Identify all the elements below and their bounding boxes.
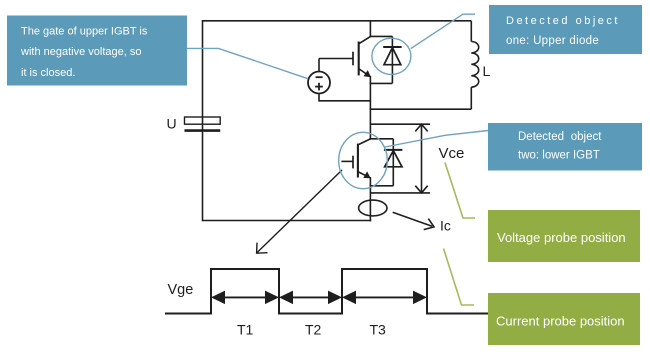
T2 span arrow — [279, 291, 342, 305]
wire: gate source bottom lead — [319, 94, 371, 101]
callout line: Vce to voltage probe box — [445, 163, 475, 219]
svg-text:Detected object: Detected object — [518, 131, 602, 143]
svg-text:T3: T3 — [370, 322, 387, 338]
wire: top rail — [203, 20, 472, 22]
callout box: gate note — [7, 16, 187, 86]
callout line: gate note to voltage source — [187, 48, 308, 78]
current probe ellipse — [359, 200, 387, 216]
svg-text:Ic: Ic — [440, 217, 451, 233]
wire: upper diode bottom branch — [370, 82, 393, 84]
Vce dimension arrow — [415, 124, 427, 193]
Vce dimension top line — [370, 123, 430, 125]
diode D1 (upper freewheel diode) — [383, 36, 401, 83]
callout line: upper diode to detected object one — [411, 14, 475, 48]
wire: upper collector feed — [369, 21, 371, 37]
wire: freewheel return — [370, 108, 472, 110]
Vce dimension bottom line — [370, 192, 430, 194]
wire: gate source top lead — [318, 59, 320, 72]
wire: lower diode bottom branch — [370, 185, 394, 187]
T1 span arrow — [211, 291, 279, 305]
svg-text:it is closed.: it is closed. — [21, 67, 75, 79]
svg-text:U: U — [167, 116, 177, 132]
inductor L — [471, 42, 478, 88]
svg-text:L: L — [483, 63, 491, 79]
svg-text:Voltage probe position: Voltage probe position — [497, 230, 626, 245]
svg-text:Vce: Vce — [439, 145, 465, 162]
wire: lower gate lead — [341, 160, 353, 162]
svg-text:T1: T1 — [237, 322, 254, 338]
svg-text:Detected object: Detected object — [506, 15, 620, 27]
svg-text:The gate of upper IGBT is: The gate of upper IGBT is — [21, 26, 148, 38]
transistor lower IGBT — [353, 139, 370, 178]
svg-text:Vge: Vge — [168, 282, 194, 298]
wire: right rail lower — [470, 87, 472, 109]
callout line: lower IGBT to detected object two — [385, 131, 488, 148]
highlight ellipse lower IGBT — [339, 132, 388, 188]
waveform Vge trace — [165, 269, 489, 314]
capacitor U — [185, 117, 221, 131]
svg-text:two: lower IGBT: two: lower IGBT — [518, 149, 600, 161]
callout line: waveform to current probe box — [444, 249, 475, 306]
wire: left rail — [202, 20, 204, 221]
callout box: detected object two — [488, 123, 642, 171]
Ic arrow — [393, 212, 434, 229]
wire: upper gate lead — [319, 58, 353, 60]
svg-text:T2: T2 — [305, 322, 322, 338]
transistor upper IGBT — [353, 37, 370, 77]
wire: upper diode top branch — [370, 35, 393, 37]
callout box: detected object one — [489, 5, 642, 54]
wire: lower diode top branch — [370, 138, 394, 140]
wire: bottom rail — [203, 220, 372, 222]
wire: lower emitter rail — [369, 177, 371, 221]
highlight circle upper diode — [372, 38, 411, 74]
callout box: current probe position — [488, 293, 640, 345]
wire: mid rail — [369, 76, 371, 140]
T3 span arrow — [342, 291, 427, 305]
pointer arrow to waveform — [257, 170, 342, 253]
wire: right rail upper — [470, 21, 472, 42]
voltage source V1 (gate drive) — [308, 72, 330, 94]
diode D2 (lower freewheel diode) — [384, 139, 403, 186]
callout box: voltage probe position — [488, 210, 640, 262]
svg-text:Current probe position: Current probe position — [496, 314, 625, 329]
svg-text:with negative voltage, so: with negative voltage, so — [20, 46, 141, 58]
svg-text:one: Upper diode: one: Upper diode — [506, 35, 599, 47]
